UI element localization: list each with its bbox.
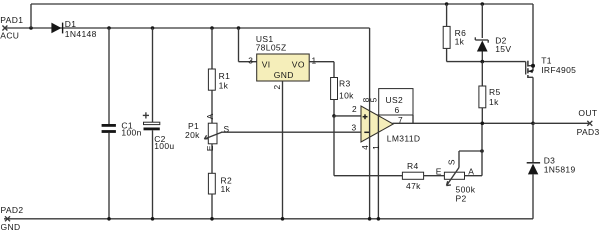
svg-text:R3: R3 [339, 78, 351, 88]
svg-text:1: 1 [312, 55, 317, 65]
svg-text:US2: US2 [386, 95, 404, 105]
junction C1 top [107, 26, 111, 30]
svg-text:5: 5 [368, 97, 378, 102]
wire: C2 top lead [152, 28, 154, 122]
svg-text:1k: 1k [219, 81, 229, 91]
wire: top supply rail [31, 3, 533, 5]
wire: C1 bottom lead [108, 133, 110, 219]
wire: P2 A terminal riser to output row [465, 123, 483, 175]
svg-text:15V: 15V [495, 44, 511, 54]
wire: pin 6 drop to output [412, 115, 414, 123]
junction C2 ground [151, 217, 155, 221]
diode D3 1N5819 [527, 156, 576, 175]
svg-text:GND: GND [1, 222, 21, 232]
pin 8 label US2 [361, 97, 371, 102]
svg-text:1k: 1k [455, 37, 465, 47]
wire: R3 to noninverting node [333, 100, 335, 116]
svg-text:OUT: OUT [578, 108, 597, 118]
wire: R6 top lead [446, 4, 448, 26]
wire: P1 to R2 [211, 144, 213, 174]
pad PAD3 (OUT) [577, 108, 600, 137]
svg-text:PAD2: PAD2 [1, 205, 24, 215]
pin 7 label US2 output [398, 115, 403, 125]
junction R5 output row [481, 122, 485, 126]
junction C2 top [151, 26, 155, 30]
svg-text:IRF4905: IRF4905 [541, 65, 576, 75]
junction R6 top [445, 2, 449, 6]
svg-text:3: 3 [248, 55, 253, 65]
pin 3 label US1 VI [248, 55, 253, 65]
junction gate line / R5 [481, 60, 485, 64]
svg-text:47k: 47k [406, 181, 421, 191]
svg-text:S: S [446, 159, 456, 165]
svg-text:PAD1: PAD1 [0, 15, 23, 25]
wire: C1 top lead [108, 28, 110, 124]
svg-text:6: 6 [395, 105, 400, 115]
junction C1 ground [107, 217, 111, 221]
capacitor C1 100n [102, 121, 142, 138]
wire: ground rail [4, 218, 533, 220]
potentiometer P2 500k [436, 159, 476, 203]
junction pin 4 ground [368, 217, 372, 221]
capacitor C2 100u (polarized) [143, 112, 175, 151]
wire: US1 GND to ground rail [282, 81, 284, 219]
svg-text:10k: 10k [339, 91, 354, 101]
svg-text:1k: 1k [221, 184, 231, 194]
zener diode D2 15V [475, 36, 511, 55]
resistor R6 1k [443, 26, 466, 48]
svg-text:1N4148: 1N4148 [65, 29, 97, 39]
junction US1 GND rail [281, 217, 285, 221]
wire: OUT node to PAD3 [533, 122, 589, 124]
svg-text:PAD3: PAD3 [577, 127, 600, 137]
wire: riser from ACU rail to top rail [30, 4, 32, 28]
pad PAD2 (GND) [1, 205, 24, 232]
svg-text:E: E [436, 166, 442, 176]
svg-text:1k: 1k [489, 97, 499, 107]
wire: P2 wiper riser [459, 151, 482, 168]
svg-text:GND: GND [274, 70, 294, 80]
pin 2 label US2 [352, 104, 357, 114]
wire: D2 bottom to gate line [481, 52, 483, 62]
junction US1 riser [237, 26, 241, 30]
svg-text:LM311D: LM311D [387, 134, 421, 144]
svg-text:VO: VO [292, 59, 305, 69]
svg-text:P2: P2 [456, 194, 467, 204]
junction P2 wiper to A [480, 149, 484, 153]
junction R2 ground [210, 217, 214, 221]
wire: R5 top lead [481, 62, 483, 86]
wire: ACU input rail [5, 27, 370, 29]
balance box US2 pin 6 [379, 89, 413, 115]
wire: R5 bottom lead [481, 108, 483, 124]
svg-text:3: 3 [352, 123, 357, 133]
svg-text:1: 1 [371, 145, 381, 150]
resistor R5 1k [479, 86, 501, 108]
svg-text:R4: R4 [407, 161, 419, 171]
svg-text:ACU: ACU [0, 31, 19, 41]
svg-text:E: E [205, 145, 215, 151]
wire: D3 to ground rail [532, 174, 534, 218]
wire: US2 output row [393, 122, 534, 124]
junction D2 top [481, 2, 485, 6]
junction R1 top [210, 26, 214, 30]
wire: R2 bottom lead [211, 194, 213, 219]
wire: R4 to P2 [424, 175, 445, 177]
svg-text:1N5819: 1N5819 [544, 164, 576, 174]
op-amp US2 LM311D comparator triangle [361, 106, 420, 144]
wire: US1 VO to R3 [309, 62, 334, 78]
wire: pin 5 column [377, 114, 379, 219]
diode D1 1N4148 [51, 19, 96, 39]
wire: R6 bottom to gate line [447, 48, 526, 61]
svg-text:2: 2 [352, 104, 357, 114]
resistor R4 47k [402, 161, 423, 191]
svg-text:A: A [468, 166, 474, 176]
pin 1 label US1 VO [312, 55, 317, 65]
svg-text:A: A [205, 113, 215, 119]
pin 2 label US1 GND [272, 85, 282, 90]
svg-text:20k: 20k [185, 130, 200, 140]
svg-text:D1: D1 [65, 19, 77, 29]
transistor T1 IRF4905 [526, 4, 577, 78]
wire: T1 drain to OUT node [532, 77, 534, 123]
pad PAD1 (ACU input) [0, 15, 23, 41]
pin 5 label US2 [368, 97, 378, 102]
wire: D2 top lead [481, 4, 483, 38]
svg-text:78L05Z: 78L05Z [256, 42, 287, 52]
pin 3 label US2 [352, 123, 357, 133]
wire: P1 wiper to pin 3 of US2 [221, 131, 361, 133]
junction at PAD1 riser [29, 26, 33, 30]
wire: riser to US1 VI [239, 28, 257, 62]
svg-text:VI: VI [262, 59, 271, 69]
junction noninverting input node [332, 114, 336, 118]
resistor R1 1k [208, 69, 230, 91]
resistor R3 10k [331, 78, 355, 101]
svg-text:2: 2 [272, 85, 282, 90]
pin 1 label US2 [371, 145, 381, 150]
svg-text:100n: 100n [121, 128, 141, 138]
resistor R2 1k [208, 173, 232, 194]
wire: feedback drop from node to R4 row [334, 116, 402, 176]
wire: OUT node to D3 [532, 123, 534, 162]
wire: C2 bottom lead [152, 130, 154, 219]
potentiometer P1 20k [185, 113, 230, 151]
junction pin 1 ground [377, 217, 381, 221]
pin 4 label US2 [360, 145, 370, 150]
junction OUT node [531, 122, 535, 126]
regulator US1 78L05Z [256, 34, 310, 81]
svg-text:100u: 100u [154, 141, 174, 151]
svg-text:4: 4 [360, 145, 370, 150]
svg-text:T1: T1 [541, 56, 552, 66]
svg-text:R5: R5 [489, 87, 501, 97]
svg-text:R1: R1 [219, 71, 231, 81]
wire: V+ pin 8 column [369, 28, 371, 219]
wire: R1 top lead [211, 28, 213, 69]
wire: node to pin 2 of US2 [334, 115, 361, 117]
wire: R1 to P1 [211, 90, 213, 123]
